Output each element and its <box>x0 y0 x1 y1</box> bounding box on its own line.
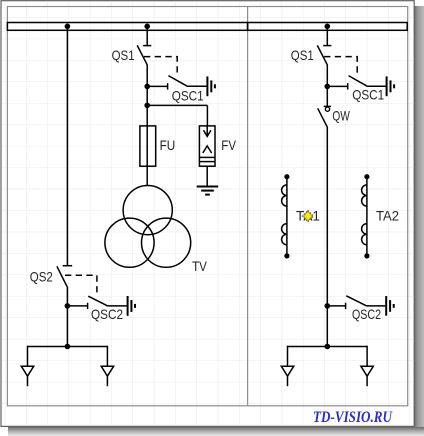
surge arrester FV body <box>199 126 215 166</box>
svg-text:FV: FV <box>221 137 236 153</box>
node: QSC1 left junction <box>144 84 150 90</box>
wire: QS1 to QW <box>326 65 328 107</box>
node: QSC1 right junction <box>325 84 331 90</box>
QSC1 (right) ground <box>386 76 388 96</box>
disconnector QS1 blade <box>137 45 147 64</box>
FV arrow head <box>204 130 211 136</box>
QSC2 (right) ground <box>385 296 387 316</box>
svg-text:QS1: QS1 <box>291 47 314 63</box>
wire: busbar to QS1 <box>146 26 148 46</box>
switch QW fixed contact tick <box>324 105 331 107</box>
cable arrow right bay left <box>281 366 293 376</box>
disconnector QS1 fixed contact tick <box>143 45 151 47</box>
drop shadow bottom <box>8 427 424 436</box>
QS2-QSC2 mechanical link (dashed) <box>65 275 97 296</box>
FV wire to ground <box>206 166 208 186</box>
switch QW blade <box>318 108 328 127</box>
QSC1 ground (sideways) <box>206 76 208 96</box>
bottom tee left bay <box>28 346 108 348</box>
drop shadow right <box>414 6 424 427</box>
QSC1 (right) blade <box>349 76 368 87</box>
svg-text:QS1: QS1 <box>112 47 135 63</box>
svg-text:QS2: QS2 <box>30 269 53 285</box>
QSC1 wire to ground <box>187 85 206 87</box>
QSC2 wire to ground <box>108 305 127 307</box>
QSC2 (right) blade <box>346 296 366 306</box>
cable arrow left <box>21 366 33 376</box>
node: busbar tap 1 <box>65 24 71 30</box>
yellow handle diamond on TA1 <box>303 211 312 220</box>
QSC2 (right) wire to ground <box>366 305 385 307</box>
busbar section 2 <box>248 23 408 31</box>
voltage transformer TV <box>123 186 172 235</box>
node: QSC2 left junction <box>65 303 71 309</box>
QSC2 fixed contact tick <box>87 303 89 309</box>
earthing switch QSC1 (right) stub <box>327 85 347 87</box>
FV chevron <box>203 146 212 153</box>
wire: busbar to QS2 <box>66 26 68 266</box>
QSC2 ground (sideways) <box>127 296 129 316</box>
wire: QS2 to tee <box>66 286 68 346</box>
earthing switch QSC2 (right) stub <box>327 305 345 307</box>
node: right tee <box>325 344 331 350</box>
svg-text:TA2: TA2 <box>376 207 399 223</box>
svg-text:QSC2: QSC2 <box>352 306 381 322</box>
node: busbar tap 3 <box>325 24 331 30</box>
svg-text:FU: FU <box>160 137 176 153</box>
switch QW hinge circle <box>325 107 329 111</box>
FV arrow shaft <box>206 126 208 136</box>
QSC2 blade <box>88 296 108 306</box>
disconnector QS2 blade <box>57 266 67 286</box>
wire: QS1 down through FU to TV <box>146 65 148 186</box>
fuse FU <box>140 126 156 166</box>
QSC2 (right) tick <box>345 303 347 309</box>
node: QSC2 right junction <box>325 303 331 309</box>
wire: junction to FV <box>147 104 207 106</box>
current transformer TA2 <box>366 177 368 256</box>
cable arrow right <box>101 366 113 376</box>
wire: QW to tee <box>326 127 328 347</box>
svg-text:QSC1: QSC1 <box>172 87 204 103</box>
busbar section 1 <box>7 23 247 31</box>
node: busbar tap 2 <box>144 24 150 30</box>
disconnector QS1 (right) blade <box>317 45 327 64</box>
cable arrow right bay right <box>361 366 373 376</box>
QSC1 blade <box>168 76 187 87</box>
svg-text:QSC1: QSC1 <box>352 87 384 103</box>
svg-text:QSC2: QSC2 <box>91 306 123 322</box>
QSC1 fixed contact tick <box>167 83 169 89</box>
QSC1 (right) wire to ground <box>367 85 386 87</box>
earthing switch QSC1 stub wire <box>147 85 167 87</box>
FV ground <box>197 186 219 188</box>
QSC1 (right) tick <box>347 83 349 89</box>
FV gap plates <box>199 156 215 158</box>
node: left tee <box>65 344 71 350</box>
current transformer TA1 <box>286 177 288 256</box>
wire: busbar to QS1 <box>326 26 328 46</box>
disconnector QS2 fixed contact tick <box>63 265 73 267</box>
svg-text:TD-VISIO.RU: TD-VISIO.RU <box>313 409 393 426</box>
cell divider <box>247 7 249 406</box>
svg-text:QW: QW <box>332 108 350 124</box>
earthing switch QSC2 stub wire <box>67 305 87 307</box>
QS1-QSC1 link (dashed, right) <box>324 57 357 75</box>
bottom tee right bay <box>288 346 368 348</box>
svg-text:TV: TV <box>192 258 207 274</box>
node: FU/FV split <box>144 103 150 109</box>
QS1-QSC1 mechanical link (dashed) <box>144 57 177 75</box>
disconnector QS1 (right) tick <box>323 45 331 47</box>
